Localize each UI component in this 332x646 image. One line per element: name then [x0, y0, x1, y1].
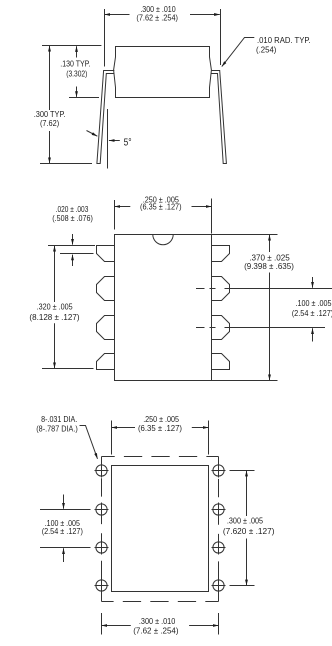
svg-text:.300 TYP.: .300 TYP.	[34, 110, 66, 119]
svg-text:(2.54 ± .127): (2.54 ± .127)	[292, 309, 332, 318]
svg-text:(7.62 ± .254): (7.62 ± .254)	[136, 13, 178, 22]
svg-text:.100 ± .005: .100 ± .005	[296, 299, 332, 308]
svg-text:.320 ± .005: .320 ± .005	[37, 302, 73, 311]
svg-text:8-.031 DIA.: 8-.031 DIA.	[41, 415, 77, 424]
svg-text:(8.128 ± .127): (8.128 ± .127)	[29, 313, 79, 322]
svg-text:(6.35 ± .127): (6.35 ± .127)	[140, 203, 182, 212]
svg-text:.250 ± .005: .250 ± .005	[143, 415, 179, 424]
svg-text:(8-.787 DIA.): (8-.787 DIA.)	[36, 424, 78, 433]
svg-text:.010 RAD. TYP.: .010 RAD. TYP.	[257, 36, 311, 45]
svg-text:5°: 5°	[124, 137, 132, 148]
svg-text:(2.54 ± .127): (2.54 ± .127)	[42, 527, 83, 536]
svg-text:(7.620 ± .127): (7.620 ± .127)	[223, 527, 275, 536]
svg-text:(3.302): (3.302)	[66, 70, 87, 79]
svg-text:(.508 ± .076): (.508 ± .076)	[52, 214, 93, 223]
svg-text:.300 ± .005: .300 ± .005	[227, 517, 264, 526]
svg-text:.130 TYP.: .130 TYP.	[60, 60, 90, 69]
svg-text:.020 ± .003: .020 ± .003	[56, 205, 89, 214]
svg-text:(.254): (.254)	[256, 46, 277, 55]
svg-text:(9.398 ± .635): (9.398 ± .635)	[244, 262, 294, 271]
svg-text:(6.35 ± .127): (6.35 ± .127)	[138, 424, 182, 433]
svg-text:(7.62): (7.62)	[40, 119, 60, 128]
svg-text:.300 ± .010: .300 ± .010	[139, 617, 176, 626]
svg-text:(7.62 ± .254): (7.62 ± .254)	[133, 626, 179, 635]
